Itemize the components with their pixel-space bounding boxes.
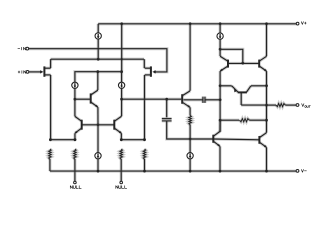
transistor Q4 <box>182 91 190 107</box>
wire R6 left lead <box>220 119 239 122</box>
wire x267 upper <box>265 86 268 105</box>
wire Q7 emitter to rail <box>218 146 221 171</box>
wire base line Q7 to Q6 <box>213 137 259 141</box>
wire I4 to rail <box>96 159 99 172</box>
wire Q8 collector up <box>219 49 222 56</box>
wire I6 down <box>219 39 222 49</box>
node Q1 emitter base line <box>97 123 100 126</box>
wire Q7 collector up <box>218 120 221 131</box>
resistor R5 <box>189 116 192 125</box>
wire x267 to Q6 collector <box>265 120 268 133</box>
transistor Q3 <box>114 116 121 133</box>
wire line C to I3 <box>120 72 123 83</box>
label +IN <box>18 71 26 74</box>
wire V+ top rail <box>98 22 296 25</box>
wire R5 down <box>189 125 192 140</box>
node rail R4 <box>143 170 146 173</box>
label NULL1 <box>70 186 81 189</box>
node line D cap tap <box>165 98 168 101</box>
resistor R2 <box>74 149 77 159</box>
wire Q2 emitter down <box>73 133 76 140</box>
wire I1 to line B <box>97 39 100 59</box>
wire Q1 base <box>75 98 91 101</box>
node x220 R6 tap <box>219 119 222 122</box>
wire R7 to VOUT <box>285 104 296 107</box>
wire base line Q2 Q3 <box>82 123 115 126</box>
transistor Q8 <box>220 56 228 71</box>
wire Q1 collector up <box>96 72 99 90</box>
wire line D <box>122 98 182 101</box>
wire C2 right lead <box>205 98 220 101</box>
terminal V+ <box>296 22 299 25</box>
wire Q9 collector to rail <box>265 24 268 57</box>
node right group L <box>120 138 123 141</box>
node I3 bottom <box>120 98 123 101</box>
label -IN <box>18 47 26 50</box>
node I2 bottom <box>74 98 77 101</box>
capacitor C1 <box>162 119 172 121</box>
wire J2 drain down <box>143 75 146 140</box>
wire Q5 base to out node <box>241 104 266 107</box>
node rail junction A <box>120 22 123 25</box>
node rail Q6E <box>265 170 268 173</box>
transistor Q6 <box>259 133 266 148</box>
current source I5 <box>187 153 193 159</box>
wire C1 top <box>165 99 168 117</box>
node rail junction B <box>189 22 192 25</box>
wire rail to Q4 collector <box>189 24 192 91</box>
wire line C <box>75 72 122 83</box>
gate arrow J1 <box>29 70 44 73</box>
resistor R1 <box>49 149 52 159</box>
node line C right end <box>120 70 123 73</box>
wire I3 down <box>120 88 123 99</box>
wire rail to I1 <box>97 24 100 33</box>
transistor J2 <box>145 66 151 76</box>
terminal NULL2 <box>120 181 123 184</box>
transistor Q1 <box>91 90 98 107</box>
node x220 C2 tap <box>219 98 222 101</box>
terminal NULL1 <box>74 181 77 184</box>
transistor J1 <box>44 66 50 76</box>
wire x267 mid <box>265 105 268 120</box>
label NULL2 <box>116 186 127 189</box>
node rail I4 <box>97 170 100 173</box>
wire I2 node to Q2 collector <box>73 99 76 116</box>
terminal V- <box>296 170 299 173</box>
wire Q6 emitter to rail <box>265 147 268 171</box>
wire Q3 emitter down <box>120 133 123 140</box>
label V+ <box>301 22 306 25</box>
transistor Q2 <box>75 116 82 133</box>
wire J1 drain down <box>49 75 52 140</box>
node rail junction C <box>219 22 222 25</box>
wire Q1 emitter column <box>96 125 99 153</box>
wire C1 bottom <box>167 121 190 139</box>
resistor R7 <box>276 104 285 107</box>
label V- <box>301 170 306 173</box>
terminal +IN <box>26 71 29 74</box>
wire Q8 Q9 base line <box>228 62 259 65</box>
wire Q9 emitter down <box>265 71 268 86</box>
wire R2 to NULL1 <box>73 159 76 181</box>
wire Q5 collector lead <box>251 84 267 87</box>
wire J2 source up <box>143 59 146 68</box>
transistor Q7 <box>213 131 220 146</box>
current source I3 <box>118 82 124 88</box>
wire rail drop to line C <box>120 24 123 72</box>
node R5 base node <box>189 138 192 141</box>
wire base node to I5 <box>189 139 192 153</box>
wire diode link <box>220 49 243 63</box>
node rail junction D <box>265 22 268 25</box>
node rail Q7E <box>219 170 222 173</box>
node line B column crossing <box>121 58 123 60</box>
wire x220 column <box>219 86 222 132</box>
node out node <box>265 104 268 107</box>
wire line B common sources <box>51 58 145 61</box>
node rail I5 <box>189 170 192 173</box>
gate arrow J2 <box>152 70 155 73</box>
wire Q1 emitter down <box>96 107 99 125</box>
wire left group line <box>50 138 75 141</box>
transistor Q9 <box>259 56 266 71</box>
wire R4 to rail <box>143 159 146 171</box>
wire C2 left lead <box>183 98 203 101</box>
wire J1 source up <box>49 59 52 68</box>
current source I1 <box>95 33 101 39</box>
node I6 bottom <box>219 48 222 51</box>
wire V- bottom rail <box>50 170 296 173</box>
wire R1 to rail corner <box>48 159 51 171</box>
terminal VOUT <box>296 104 299 107</box>
wire Q8 emitter down <box>219 71 222 86</box>
node left group R <box>74 138 77 141</box>
wire right group line <box>121 138 144 141</box>
wire rail to I6 <box>219 24 222 33</box>
resistor R6 <box>240 119 250 122</box>
node Q9E column <box>265 84 268 87</box>
wire R3 to NULL2 <box>120 159 123 181</box>
wire I3 node to Q3 collector <box>120 99 123 116</box>
wire base line to Q7 <box>190 137 213 140</box>
node x267 R6 tap <box>265 119 268 122</box>
current source I2 <box>72 82 78 88</box>
wire I5 to rail <box>189 159 192 172</box>
transistor Q5 <box>232 86 251 105</box>
wire out node to R7 <box>267 104 277 107</box>
node Q8E Q5 line <box>219 84 222 87</box>
wire I2 down <box>73 88 76 99</box>
node right group R <box>143 138 146 141</box>
current source I4 <box>95 153 101 159</box>
node link to base line <box>241 62 244 65</box>
wire R6 right lead <box>249 119 266 122</box>
wire Q4 emitter down <box>189 107 192 115</box>
node I1 line B junction <box>97 58 100 61</box>
resistor R4 <box>143 149 146 159</box>
node left group L <box>49 138 52 141</box>
current source I6 <box>217 33 223 39</box>
wire Q5 emitter lead <box>220 84 232 87</box>
resistor R3 <box>120 149 123 159</box>
wire -IN to J2 gate <box>29 49 167 72</box>
capacitor C2 <box>203 97 205 103</box>
node line C Q1 collector tap <box>96 70 99 73</box>
label VOUT <box>302 104 311 108</box>
terminal -IN <box>26 47 29 50</box>
